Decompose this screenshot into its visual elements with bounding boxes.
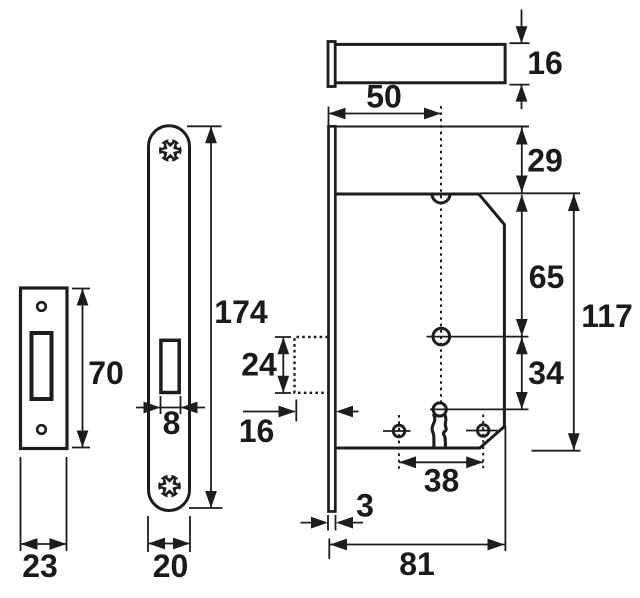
dimension 70 line xyxy=(82,289,84,448)
svg-text:117: 117 xyxy=(581,298,633,334)
faceplate top extension line xyxy=(336,126,530,128)
right screw dotted line xyxy=(482,415,484,470)
follower tick line xyxy=(427,336,529,338)
dimension 81 ticks xyxy=(329,426,505,559)
keyhole circle xyxy=(433,403,446,416)
dimension 174 line xyxy=(210,126,212,508)
dimension 3 arrows xyxy=(311,517,353,529)
faceplate latch slot xyxy=(161,340,179,392)
dimension 8 ticks xyxy=(161,396,181,414)
dimension 20 arrows xyxy=(148,538,190,550)
dimension 174 arrows xyxy=(205,126,217,508)
svg-text:29: 29 xyxy=(527,143,563,179)
svg-text:50: 50 xyxy=(366,79,402,115)
dimension 117 line xyxy=(573,194,575,450)
follower hole xyxy=(433,328,450,345)
dimension 29 arrows xyxy=(516,128,528,193)
bottom 117 tick line xyxy=(532,450,581,452)
dimension 24 line xyxy=(282,337,284,393)
svg-text:3: 3 xyxy=(356,488,374,524)
dimension 16 left tick xyxy=(295,400,297,422)
dimension 16 top ticks xyxy=(510,43,530,84)
lock case outline xyxy=(336,194,505,448)
latch notch semicircle xyxy=(432,194,450,203)
svg-text:20: 20 xyxy=(153,548,189,584)
strike plate screw hole top xyxy=(37,302,46,311)
svg-text:16: 16 xyxy=(527,45,563,81)
dimension 34 arrows xyxy=(516,337,528,409)
dimension 70 ticks xyxy=(72,289,90,448)
dimension 24 ticks xyxy=(275,337,291,393)
lock faceplate front xyxy=(329,126,336,511)
dimension 16 left right stub xyxy=(352,411,359,413)
dimension 3 lines xyxy=(301,522,364,524)
svg-text:16: 16 xyxy=(239,413,275,449)
dimension 23 extension lines xyxy=(21,457,67,551)
dimension 65 line xyxy=(521,195,523,336)
svg-text:34: 34 xyxy=(528,355,564,391)
dimension 16 top lines xyxy=(521,10,523,110)
dimension 16 left line xyxy=(243,411,295,413)
case top extension line xyxy=(480,192,580,194)
dimension 50 arrows xyxy=(329,108,442,120)
faceplate screw bottom xyxy=(158,474,181,498)
dimension 65 arrows xyxy=(516,195,528,336)
dimension 8 arrows xyxy=(144,402,198,414)
dimension 50 line xyxy=(329,113,442,115)
centerline dotted xyxy=(440,106,442,402)
mortise recess dotted box xyxy=(295,337,329,393)
svg-text:38: 38 xyxy=(424,463,460,499)
mounting screw hole left xyxy=(393,425,405,437)
dimension 3 ticks xyxy=(328,515,336,531)
dimension 23 line xyxy=(21,543,67,545)
dimension 38 arrows xyxy=(399,456,483,468)
dimension 50 tick xyxy=(328,107,330,127)
svg-text:23: 23 xyxy=(22,548,58,584)
strike plate screw hole bottom xyxy=(37,425,46,434)
dimension 34 line xyxy=(521,337,523,409)
svg-text:24: 24 xyxy=(241,347,277,383)
faceplate outline xyxy=(149,126,190,511)
lock top view faceplate edge xyxy=(328,42,335,87)
keyhole stem right side xyxy=(444,414,447,448)
dimension 20 extension lines xyxy=(148,516,190,552)
left screw tick xyxy=(383,430,411,432)
mounting screw hole right xyxy=(477,425,489,437)
dimension 29 line xyxy=(521,128,523,193)
dimension 174 ticks xyxy=(187,126,223,508)
svg-text:8: 8 xyxy=(163,405,181,441)
svg-text:81: 81 xyxy=(399,546,435,582)
strike plate latch slot xyxy=(32,333,52,399)
left screw dotted line xyxy=(398,415,400,470)
dimension 81 arrows xyxy=(330,539,505,551)
dimension 16 left arrows xyxy=(279,406,354,418)
dimension 117 arrows xyxy=(568,194,580,450)
keyhole tick line xyxy=(430,408,529,410)
strike plate outline xyxy=(21,288,68,449)
dimension 24 arrows xyxy=(277,337,289,392)
keyhole stem left side xyxy=(432,414,435,449)
dimension 23 arrows xyxy=(21,538,67,550)
svg-text:174: 174 xyxy=(214,294,268,330)
dimension 70 arrows xyxy=(77,289,89,448)
dimension 16 top arrows xyxy=(516,26,528,101)
dimension 38 line xyxy=(399,461,483,463)
dimension 8 line xyxy=(136,407,205,409)
dimension 81 line xyxy=(330,544,505,546)
svg-text:70: 70 xyxy=(88,355,124,391)
faceplate screw top xyxy=(159,139,182,163)
right screw tick xyxy=(466,430,498,432)
dimension 20 line xyxy=(148,543,190,545)
svg-text:65: 65 xyxy=(529,259,565,295)
lock top view body xyxy=(333,44,505,82)
